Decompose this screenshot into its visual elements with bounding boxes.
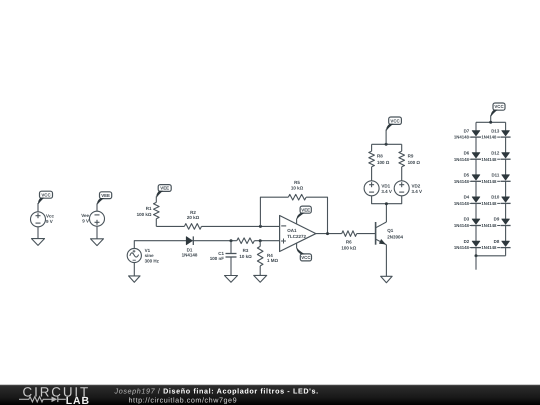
ground (Q1 emitter) [381,276,393,282]
svg-text:http://circuitlab.com/chw7ge9: http://circuitlab.com/chw7ge9 [129,396,238,405]
diode D7 1N4148 [454,128,481,139]
svg-text:10 kΩ: 10 kΩ [291,186,304,191]
svg-text:1N4148: 1N4148 [481,245,497,250]
wire V1 to ground [133,263,135,276]
wire D8 to bottom rail [505,248,507,256]
svg-text:C1: C1 [218,251,224,256]
svg-text:D13: D13 [491,128,500,133]
wire V1 to D1 [134,241,186,249]
voltage source Vee 9 V [81,211,104,226]
svg-text:9 V: 9 V [82,219,89,224]
svg-text:9 V: 9 V [46,219,53,224]
resistor R8 100 Ohm (vertical) [369,144,390,181]
svg-text:VCC: VCC [494,104,504,109]
VCC power flag (OA1 bottom pin) [300,254,311,261]
svg-text:20 kΩ: 20 kΩ [187,215,200,220]
wire segment above D12 [505,137,507,153]
svg-text:OA1: OA1 [287,228,297,233]
junction dot node B (C1 top) [230,239,233,242]
svg-text:V1: V1 [145,248,151,253]
svg-text:1N4148: 1N4148 [182,253,198,258]
svg-text:D11: D11 [491,173,499,178]
wire op-amp output [316,233,342,235]
voltage source VD2 3.4 V [394,181,422,196]
wire R6 to Q1 base [357,233,376,235]
diode D8 1N4148 [481,239,510,250]
wire segment above D4 [475,181,477,197]
diode D2 1N4148 [454,239,481,250]
svg-text:Q1: Q1 [387,228,394,233]
CircuitLab logo schematic doodle [19,397,66,402]
transistor Q1 2N3904 (NPN) [376,222,404,245]
svg-text:1 MΩ: 1 MΩ [267,258,279,263]
svg-text:1N4148: 1N4148 [481,201,497,206]
diode D13 1N4148 [481,128,510,139]
svg-text:D9: D9 [494,217,500,222]
svg-text:1N4148: 1N4148 [454,179,470,184]
svg-text:D8: D8 [494,239,500,244]
junction dot at op-amp output [326,232,329,235]
svg-text:3.4 V: 3.4 V [381,189,392,194]
ground (below Vcc) [32,239,45,246]
svg-text:100 Ω: 100 Ω [408,160,421,165]
resistor R9 100 Ohm (vertical) [399,144,420,181]
svg-text:1N4148: 1N4148 [481,179,497,184]
wire Q1 emitter to ground [385,245,387,277]
ground (below C1) [225,276,238,283]
svg-text:3.4 V: 3.4 V [412,189,423,194]
diode D1 1N4148 (horizontal) [182,236,198,257]
wire segment above D8 [505,226,507,242]
svg-text:D2: D2 [464,239,470,244]
svg-text:R1: R1 [146,206,152,211]
resistor R3 10 kOhm (horizontal) [237,238,255,259]
resistor R1 100 kOhm (vertical) [137,196,159,226]
svg-text:10 kΩ: 10 kΩ [239,254,252,259]
svg-text:1N4148: 1N4148 [454,245,470,250]
ground (below V1) [129,276,141,282]
wire segment above D7 [475,122,477,130]
wire flag to Vcc source [37,203,39,212]
svg-text:D1: D1 [187,247,193,252]
wire segment above D2 [475,226,477,242]
svg-text:D5: D5 [464,173,470,178]
svg-text:1N4148: 1N4148 [454,157,470,162]
junction dot array bottom [475,254,478,257]
svg-text:D3: D3 [464,217,470,222]
wire VCC flag down to array rail [490,115,492,122]
VCC power flag (diode array) [493,103,505,110]
resistor R2 20 kOhm (horizontal) [184,210,201,229]
junction dot node C (R4 top) [259,239,262,242]
op-amp OA1 TLC2272 [280,216,316,252]
VCC power flag (R8/R9 rail) [389,117,402,124]
svg-text:VEE: VEE [101,193,110,198]
svg-text:D4: D4 [464,195,470,200]
resistor R4 1 MOhm (vertical) [257,241,278,276]
feedback wire output to R5 [306,197,327,233]
wire R2 to inverting-input node [202,225,280,227]
diode D6 1N4148 [454,150,481,161]
svg-text:100 nF: 100 nF [210,256,225,261]
svg-text:Joseph197 / Diseño final: Acop: Joseph197 / Diseño final: Acoplador filt… [114,387,319,396]
resistor R6 100 kOhm (horizontal) [341,231,356,251]
svg-text:Vee: Vee [81,213,89,218]
diode D11 1N4148 [481,173,510,184]
wire VCC flag to rail [385,130,387,145]
feedback wire R5 to inverting node [260,197,288,226]
wire segment above D5 [475,159,477,175]
wire segment above D3 [475,203,477,219]
ground (below Vee) [91,239,104,246]
diode D10 1N4148 [481,195,510,206]
junction dot top rail [385,143,388,146]
wire Vcc source to ground [37,227,39,239]
svg-text:LAB: LAB [66,396,90,405]
voltage source VD1 3.4 V [364,181,392,196]
svg-text:D7: D7 [464,128,470,133]
svg-text:300 Hz: 300 Hz [145,259,160,264]
voltage source Vcc 9 V [31,212,55,227]
svg-text:1N4148: 1N4148 [481,223,497,228]
wire D2 to bottom rail [475,248,477,256]
svg-text:R6: R6 [346,240,352,245]
open wire stub below array [475,256,477,270]
wire D1 to node B [192,240,237,242]
svg-text:2N3904: 2N3904 [387,234,403,239]
svg-text:1N4148: 1N4148 [481,135,497,140]
svg-text:100 Ω: 100 Ω [377,160,390,165]
junction dot array top rail [489,121,492,124]
svg-text:D10: D10 [491,195,500,200]
resistor R5 10 kOhm (feedback) [288,180,306,200]
svg-text:VCC: VCC [41,192,51,197]
junction dot collector node [385,202,388,205]
wire Vee source to ground [96,226,98,239]
wire Q1 collector up [385,204,387,222]
svg-text:VCC: VCC [390,118,400,123]
wire R3 to non-inverting node [254,240,279,242]
wire segment above D11 [505,159,507,175]
svg-text:R3: R3 [243,248,249,253]
wire flag to Vee source [96,203,98,211]
junction dot at inverting-input node [259,225,262,228]
svg-text:R2: R2 [190,210,196,215]
svg-text:100 kΩ: 100 kΩ [341,246,356,251]
svg-text:100 kΩ: 100 kΩ [137,212,152,217]
wire segment above D6 [475,137,477,153]
VCC power flag (above source Vcc) [40,191,53,198]
diode D4 1N4148 [454,195,481,206]
wire segment above D13 [505,122,507,130]
VEE power flag (OA1 top pin) [300,206,311,213]
svg-text:R8: R8 [377,154,383,159]
ground (below R4) [254,275,267,282]
wire segment above D9 [505,203,507,219]
svg-text:D12: D12 [491,150,500,155]
svg-text:Vcc: Vcc [46,213,55,218]
svg-text:VEE: VEE [160,186,169,191]
VEE power flag (above R1) [158,185,171,192]
diode D5 1N4148 [454,173,481,184]
wire top rail R8-R9 [372,143,402,145]
svg-text:R5: R5 [294,180,300,185]
svg-text:1N4148: 1N4148 [454,223,470,228]
svg-text:sine: sine [145,253,155,258]
diode D12 1N4148 [481,150,510,161]
capacitor C1 100 nF (vertical) [210,241,237,276]
wire array bottom rail [476,255,506,257]
svg-text:TLC2272: TLC2272 [287,234,306,239]
diode D3 1N4148 [454,217,481,228]
wire VD1/VD2 bottoms to collector node [372,196,402,204]
svg-text:1N4148: 1N4148 [454,135,470,140]
svg-text:R9: R9 [408,154,414,159]
wire array top rail [476,121,506,123]
svg-text:VD1: VD1 [381,183,390,188]
diode D9 1N4148 [481,217,510,228]
svg-text:1N4148: 1N4148 [454,201,470,206]
svg-text:D6: D6 [464,150,470,155]
voltage source V1 sine 300 Hz [127,248,159,264]
svg-text:VD2: VD2 [412,183,421,188]
svg-text:1N4148: 1N4148 [481,157,497,162]
VEE power flag (above source Vee) [100,192,112,199]
svg-text:VEE: VEE [301,207,310,212]
wire R1 to R2 [156,225,184,227]
svg-text:VCC: VCC [301,255,311,260]
wire segment above D10 [505,181,507,197]
